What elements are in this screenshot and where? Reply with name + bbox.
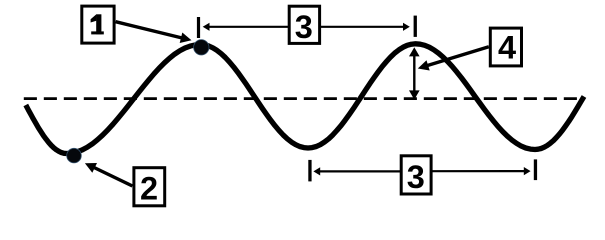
svg-text:4: 4 (498, 30, 516, 66)
top wavelength measure line left segment (208, 26, 290, 28)
tick below third trough (534, 159, 537, 180)
bottom wavelength measure line right segment (431, 170, 526, 172)
bottom wavelength right arrowhead (524, 167, 531, 175)
svg-text:3: 3 (407, 159, 425, 195)
amplitude arrow bottom head (409, 90, 420, 99)
svg-text:2: 2 (140, 171, 158, 207)
box label 3 (top) (289, 6, 319, 43)
bottom wavelength measure line left segment (319, 170, 402, 172)
arrow from box 2 to trough dot (92, 166, 133, 186)
top wavelength right arrowhead (403, 23, 410, 31)
amplitude arrow top head (409, 47, 420, 56)
box label 1 (82, 6, 114, 43)
crest point dot (label 1 target) (194, 40, 209, 55)
tick at second crest (414, 16, 417, 37)
svg-text:3: 3 (295, 9, 313, 45)
tick at first crest (197, 17, 200, 38)
tick below second trough (308, 160, 311, 182)
digit 1 (custom glyph with foot bar) (91, 14, 104, 34)
box label 4 (490, 28, 521, 66)
amplitude double arrow shaft (413, 54, 415, 94)
bottom wavelength left arrowhead (313, 167, 320, 175)
top wavelength left arrowhead (203, 23, 210, 31)
box label 3 (bottom) (401, 156, 431, 194)
wave curve (26, 44, 584, 154)
top wavelength measure line right segment (319, 26, 405, 28)
arrow from box 1 to crest dot (116, 22, 185, 39)
arrow from box 4 to amplitude arrow (425, 47, 489, 67)
dashed equilibrium midline (24, 97, 584, 100)
box label 2 (134, 168, 165, 206)
trough point dot (label 2 target) (67, 148, 82, 163)
